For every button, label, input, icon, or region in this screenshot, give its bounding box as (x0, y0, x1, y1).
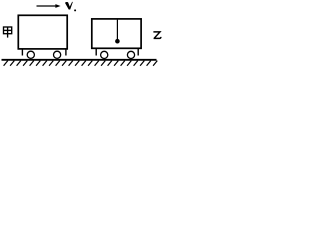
cart 甲 body (18, 15, 67, 49)
cart 乙 left strut (95, 48, 97, 55)
cart 甲 left wheel (27, 51, 34, 58)
cart 甲 right strut (65, 49, 67, 56)
cart 乙 body (92, 19, 141, 48)
cart 甲 left strut (21, 49, 23, 56)
cart 乙 right strut (137, 48, 139, 55)
label 甲 (drawn glyph) (4, 27, 12, 38)
velocity arrow (37, 4, 61, 8)
cart 乙 left wheel (101, 51, 108, 58)
label v (65, 2, 73, 10)
cart 乙 right wheel (127, 51, 134, 58)
ground line (2, 59, 157, 61)
pendulum string (116, 20, 118, 40)
label 乙 (drawn glyph) (153, 32, 161, 39)
pendulum bob (115, 39, 120, 44)
cart 甲 right wheel (54, 51, 61, 58)
ground hatching (4, 61, 158, 66)
v italic ball terminal (74, 9, 76, 11)
